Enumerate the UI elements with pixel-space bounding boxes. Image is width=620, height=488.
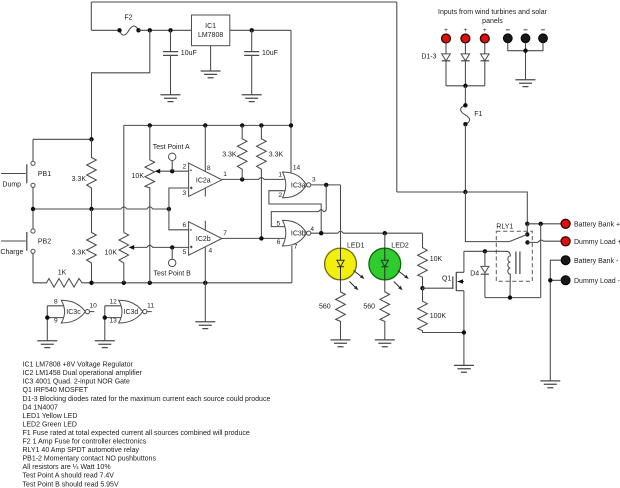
svg-text:LED1: LED1 <box>347 242 365 249</box>
terminal wind/solar + 1 <box>442 27 451 43</box>
svg-text:IC3d: IC3d <box>124 309 139 316</box>
node battery+ junction <box>525 222 529 226</box>
svg-text:3.3K: 3.3K <box>72 176 87 183</box>
wire NO contact to dummy load + terminal with hop <box>528 240 562 242</box>
resistor R3 1K in ground rail <box>33 269 292 287</box>
diode D1 <box>442 43 451 86</box>
svg-text:+: + <box>444 27 448 34</box>
wire pushbutton mid rail with hops <box>33 207 169 209</box>
svg-text:3.3K: 3.3K <box>269 152 284 159</box>
wire battery+ to terminal <box>527 223 561 225</box>
node F2 output junction <box>148 28 152 32</box>
svg-text:Battery Bank -: Battery Bank - <box>574 258 619 265</box>
resistor R5 3.3K pull-up <box>257 125 284 238</box>
svg-text:560: 560 <box>319 304 331 311</box>
LED1 yellow <box>325 242 365 290</box>
test point A <box>153 144 190 171</box>
svg-text:7: 7 <box>294 243 298 250</box>
svg-text:LED2 Green LED: LED2 Green LED <box>23 421 77 428</box>
svg-text:LED2: LED2 <box>391 242 409 249</box>
fuse F1 <box>461 103 483 126</box>
node IC2 input junction <box>167 207 171 211</box>
svg-text:9: 9 <box>54 318 58 325</box>
node D4 top junction <box>483 249 487 253</box>
svg-text:D1-3 Blocking diodes rated for: D1-3 Blocking diodes rated for the maxim… <box>23 396 271 403</box>
resistor R9 100K gate pulldown <box>418 288 464 332</box>
node divider mid junction <box>89 207 93 211</box>
node C1 top junction <box>168 28 172 32</box>
relay coil <box>464 251 520 297</box>
wire PB1 top to divider <box>33 138 92 140</box>
svg-text:4: 4 <box>209 248 213 255</box>
terminal wind/solar + 3 <box>480 27 489 43</box>
svg-text:1: 1 <box>278 172 282 179</box>
diode D3 <box>481 43 490 86</box>
node relay NO contact <box>525 240 529 244</box>
svg-text:Test Point B should read 5.95V: Test Point B should read 5.95V <box>23 481 119 488</box>
resistor R4 3.3K pull-up <box>222 125 247 179</box>
wire coil bottom return <box>485 297 541 299</box>
wire IC3a output <box>311 184 341 186</box>
svg-text:Dummy Load -: Dummy Load - <box>574 278 620 285</box>
capacitor C2 10uF <box>244 30 278 95</box>
terminal wind/solar + 2 <box>461 27 470 43</box>
resistor R7 560 <box>363 280 389 340</box>
svg-text:F2: F2 <box>124 15 132 22</box>
pushbutton PB2 (Charge) <box>0 209 51 283</box>
node gate junction <box>420 286 424 290</box>
terminal wind/solar - 3 <box>539 30 548 43</box>
node raw bus 4-way junction <box>463 190 467 194</box>
wire right drop of top rail to raw bus <box>396 2 398 192</box>
potentiometer VR1 10K (Test Point A reference) <box>132 125 189 282</box>
potentiometer VR2 10K (Test Point B reference) with hop over VR1 lead <box>105 233 189 283</box>
wire IC2a output to IC3a pin1 with hop <box>222 178 285 180</box>
svg-text:560: 560 <box>363 304 375 311</box>
wire IC1 ground lead <box>210 46 212 71</box>
svg-text:F2 1 Amp Fuse for controller e: F2 1 Amp Fuse for controller electronics <box>23 439 147 446</box>
node negative bus junction <box>523 49 527 53</box>
wire battery- / dummy- to ground <box>550 260 561 381</box>
svg-text:13: 13 <box>110 318 118 325</box>
svg-text:IC3b: IC3b <box>291 231 306 238</box>
svg-text:+: + <box>463 27 467 34</box>
ground under R6 <box>331 340 351 347</box>
wire raw bus junction to relay NC branch <box>465 192 527 224</box>
op-amp IC2b <box>182 221 227 322</box>
svg-text:6: 6 <box>182 222 186 229</box>
svg-text:100K: 100K <box>430 313 447 320</box>
node PB junction <box>31 207 35 211</box>
svg-text:1: 1 <box>223 171 227 178</box>
svg-text:Inputs from wind turbines and: Inputs from wind turbines and solar <box>438 9 548 16</box>
svg-text:Q1 IRF540 MOSFET: Q1 IRF540 MOSFET <box>23 387 89 394</box>
wire feedback IC3b out to IC3a pin2 <box>269 191 321 234</box>
svg-text:PB1: PB1 <box>38 171 51 178</box>
ground under negative bus <box>516 80 536 87</box>
svg-text:LED1 Yellow LED: LED1 Yellow LED <box>23 413 78 420</box>
relay NC contact stem <box>526 224 528 235</box>
wire negative bus <box>508 43 543 80</box>
ground under IC3d <box>95 341 115 348</box>
node wiper/testpointA junction <box>170 169 174 173</box>
svg-text:D4: D4 <box>470 270 479 277</box>
svg-text:10uF: 10uF <box>262 50 278 57</box>
wire left drop of top rail to F2 <box>90 2 92 30</box>
resistor R8 10K gate drive <box>418 233 443 288</box>
node divider top junction <box>89 137 93 141</box>
ground under negative terminals <box>540 381 560 388</box>
regulator IC1 LM7808 <box>192 15 230 46</box>
pushbutton PB1 (Dump) <box>1 139 51 209</box>
ground under IC2b pin4 <box>195 322 215 329</box>
svg-text:10: 10 <box>90 303 98 310</box>
svg-text:D1-3: D1-3 <box>421 54 436 61</box>
svg-text:PB1-2 Momentary contact NO pus: PB1-2 Momentary contact NO pushbuttons <box>23 456 157 463</box>
svg-text:14: 14 <box>293 165 301 172</box>
resistor R6 560 <box>319 280 345 340</box>
svg-text:Q1: Q1 <box>442 275 451 282</box>
NOR gate IC3a <box>278 165 316 199</box>
diodes D1-3 blocking with input terminals <box>438 9 548 25</box>
svg-text:Dummy Load +: Dummy Load + <box>574 239 620 246</box>
svg-text:LM7808: LM7808 <box>198 32 223 39</box>
svg-text:IC1: IC1 <box>205 23 216 30</box>
wire IC3b output to 10K with hop over LED1 lead <box>311 231 423 233</box>
wire +8V feed down to rail and IC3a pin14 <box>290 30 292 174</box>
ground under Q1 <box>454 365 474 372</box>
LED2 green <box>369 242 409 290</box>
capacitor C1 10uF <box>163 30 197 95</box>
resistor R1 3.3K <box>72 139 97 209</box>
svg-text:Test Point B: Test Point B <box>154 271 192 278</box>
node IC3a output junction <box>324 183 328 187</box>
node Q1 source / R9 junction <box>462 330 466 334</box>
svg-text:Test Point A: Test Point A <box>153 144 190 151</box>
svg-text:All resistors are ¼ Watt 10%: All resistors are ¼ Watt 10% <box>23 464 111 471</box>
svg-text:3: 3 <box>182 190 186 197</box>
wire top-rail drop to raw bus junction <box>397 191 466 193</box>
svg-text:12: 12 <box>110 298 118 305</box>
node dummy branch junction <box>539 222 543 226</box>
wire dummy branch down to coil return <box>540 224 542 298</box>
wire IC2a pin3 to mid rail <box>169 188 189 230</box>
wire +8V rail <box>124 124 291 126</box>
diode D4 flyback <box>470 251 489 297</box>
svg-text:Dump: Dump <box>2 182 21 189</box>
node rail junctions <box>148 123 152 127</box>
node relay arm tip <box>525 232 529 236</box>
transistor Q1 IRF540 MOSFET <box>442 251 464 365</box>
wire LED2 lead <box>384 233 386 248</box>
wire top rail from F2 input to raw bus junction <box>91 1 397 3</box>
svg-text:IC3 4001 Quad. 2-input NOR Gat: IC3 4001 Quad. 2-input NOR Gate <box>23 379 130 386</box>
wire F2 input segment <box>91 29 119 31</box>
node C2 top junction <box>250 28 254 32</box>
notes text block <box>23 362 271 488</box>
svg-text:7: 7 <box>223 230 227 237</box>
node negative junction <box>548 278 552 282</box>
svg-text:2: 2 <box>278 192 282 199</box>
diode D2 <box>461 43 470 86</box>
svg-text:PB2: PB2 <box>38 239 51 246</box>
terminal Battery Bank + <box>561 219 620 228</box>
wire feedback IC3a out to IC3b pin5 with hop <box>271 185 326 227</box>
svg-text:D4 1N4007: D4 1N4007 <box>23 404 59 411</box>
node IC2a output / R4 junction <box>240 177 244 181</box>
node ground rail junctions <box>89 281 93 285</box>
svg-text:+: + <box>483 27 487 34</box>
terminal Dummy Load + <box>561 237 620 246</box>
svg-text:8: 8 <box>207 165 211 172</box>
ground under C1 <box>161 95 181 102</box>
node wiper/testpointB junction <box>170 245 174 249</box>
wire F1 to raw bus junction <box>464 124 466 192</box>
ground under IC3c <box>37 341 57 348</box>
node IC3b output junction <box>319 231 323 235</box>
node LED2 junction <box>383 231 387 235</box>
wire IC3a output down to LED1 <box>340 185 342 248</box>
node coil bottom junction <box>508 295 512 299</box>
terminal Dummy Load - <box>561 276 620 285</box>
wire F2 output to IC1 input <box>139 29 192 31</box>
svg-text:5: 5 <box>276 221 280 228</box>
svg-text:F1 Fuse rated at total expecte: F1 Fuse rated at total expected current … <box>23 430 250 437</box>
svg-text:3.3K: 3.3K <box>72 250 87 257</box>
svg-text:5: 5 <box>182 249 186 256</box>
fuse F2 <box>117 15 140 36</box>
NOR gate IC3c (unused, inputs grounded) <box>45 298 97 341</box>
node diode bus junction <box>463 84 467 88</box>
svg-text:IC2 LM1458 Dual operational am: IC2 LM1458 Dual operational amplifier <box>23 370 143 377</box>
svg-text:10K: 10K <box>105 250 118 257</box>
ground under C2 <box>242 95 262 102</box>
wire bus to F1 <box>464 86 466 106</box>
svg-text:10K: 10K <box>132 173 145 180</box>
svg-text:10K: 10K <box>430 256 443 263</box>
svg-text:IC3c: IC3c <box>66 309 81 316</box>
svg-text:IC3a: IC3a <box>291 182 306 189</box>
wire gate junction to Q1 gate <box>423 287 453 289</box>
ground under IC1 <box>201 71 221 78</box>
relay common arm <box>509 234 527 241</box>
svg-text:4: 4 <box>310 226 314 233</box>
svg-text:11: 11 <box>147 303 154 310</box>
resistor R2 3.3K <box>72 209 97 283</box>
svg-text:Battery Bank +: Battery Bank + <box>574 221 620 228</box>
svg-text:1K: 1K <box>58 269 67 276</box>
wire diode output bus <box>446 85 485 87</box>
svg-text:3: 3 <box>312 177 316 184</box>
wire IC1 output (+8V) <box>230 29 291 31</box>
svg-text:IC2b: IC2b <box>196 236 211 243</box>
svg-text:Charge: Charge <box>0 249 23 256</box>
terminal wind/solar - 1 <box>503 30 512 43</box>
wire +8V rail left drop to pot VR2 <box>123 125 125 232</box>
svg-text:6: 6 <box>277 239 281 246</box>
terminal Battery Bank - <box>561 256 619 265</box>
op-amp IC2a <box>182 125 227 197</box>
svg-text:IC1 LM7808 +8V Voltage Regulat: IC1 LM7808 +8V Voltage Regulator <box>23 362 134 369</box>
wire IC2b output to IC3b pin6 <box>222 237 285 239</box>
terminal wind/solar - 2 <box>521 30 530 43</box>
relay RLY1 <box>496 224 532 282</box>
svg-text:RLY1 40 Amp SPDT automotive re: RLY1 40 Amp SPDT automotive relay <box>23 447 140 454</box>
ground under R7 <box>375 340 395 347</box>
svg-text:Test Point A should read 7.4V: Test Point A should read 7.4V <box>23 473 115 480</box>
wire raw bus junction down to relay common arm <box>465 192 509 242</box>
svg-text:panels: panels <box>482 18 503 25</box>
svg-text:3.3K: 3.3K <box>222 152 237 159</box>
svg-text:RLY1: RLY1 <box>496 224 513 231</box>
svg-text:F1: F1 <box>474 111 482 118</box>
NOR gate IC3b <box>276 220 314 250</box>
node IC2b output / R5 junction <box>259 236 263 240</box>
wire raw feed down to divider chain <box>92 30 150 139</box>
svg-text:2: 2 <box>182 163 186 170</box>
svg-text:IC2a: IC2a <box>196 178 211 185</box>
svg-text:8: 8 <box>54 298 58 305</box>
wire ground rail up to IC3b pin7 <box>291 246 293 283</box>
svg-text:10uF: 10uF <box>181 50 197 57</box>
test point B <box>154 247 192 277</box>
NOR gate IC3d (unused, inputs grounded) <box>103 298 155 341</box>
